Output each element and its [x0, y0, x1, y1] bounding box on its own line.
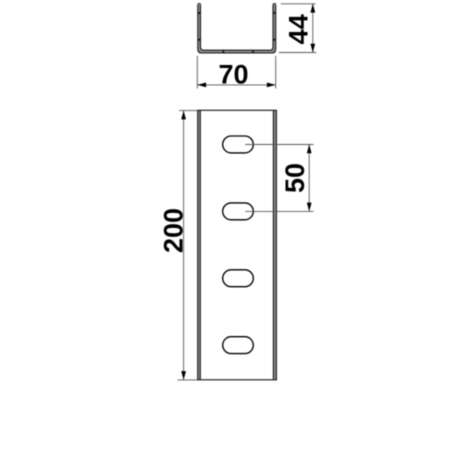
dimension 44 line	[312, 4, 314, 53]
dimension 44 arrow up	[310, 4, 315, 13]
U-channel top hem caps	[198, 4, 201, 5]
dimension 70 extension line left	[196, 56, 198, 89]
strip folded edge gray band left	[198, 110, 201, 380]
dimension 70 arrow right	[267, 83, 276, 88]
U-channel profile sheet fill	[198, 5, 276, 53]
dimension 200 arrow down	[181, 371, 186, 380]
slot 3	[223, 270, 254, 287]
svg-text:44: 44	[284, 14, 314, 44]
dimension 50 extension line lower	[245, 210, 313, 212]
profile joint tick right wall upper	[273, 12, 276, 14]
dimension 200 extension line top	[179, 110, 198, 112]
dimension 50 line	[308, 145, 310, 212]
dimension 200 line	[183, 111, 185, 380]
profile joint tick right wall lower	[273, 39, 276, 41]
strip folded edge inner line right	[272, 111, 274, 380]
dimension 44 extension line bottom	[279, 52, 316, 54]
dimension 70 line	[197, 84, 275, 86]
profile joint tick left wall lower	[198, 39, 201, 41]
slot 2	[223, 203, 254, 220]
dimension 50 extension line upper	[245, 144, 313, 146]
dimension 44 extension line top	[281, 3, 316, 5]
dimension 200 extension line bottom	[178, 379, 198, 381]
U-channel profile outer contour	[198, 4, 276, 53]
strip folded edge inner line left	[199, 111, 201, 380]
strip plan view outer rectangle	[198, 110, 277, 380]
dimension 44 arrow down	[310, 44, 315, 53]
profile joint tick bottom right	[252, 51, 254, 54]
profile joint tick bottom left	[223, 51, 225, 54]
svg-text:50: 50	[280, 163, 310, 193]
svg-text:200: 200	[159, 208, 189, 253]
slot 4	[223, 337, 254, 354]
dimension 70 arrow left	[197, 83, 206, 88]
U-channel profile inner contour	[201, 5, 274, 50]
strip folded edge gray band right	[273, 110, 276, 380]
dimension 70 extension line right	[275, 56, 277, 89]
dimension 50 arrow down	[307, 203, 312, 212]
svg-text:70: 70	[218, 60, 248, 90]
dimension 200 arrow up	[181, 111, 186, 120]
profile joint tick left wall upper	[198, 12, 201, 14]
dimension 50 arrow up	[307, 145, 312, 154]
slot 1	[223, 136, 254, 153]
